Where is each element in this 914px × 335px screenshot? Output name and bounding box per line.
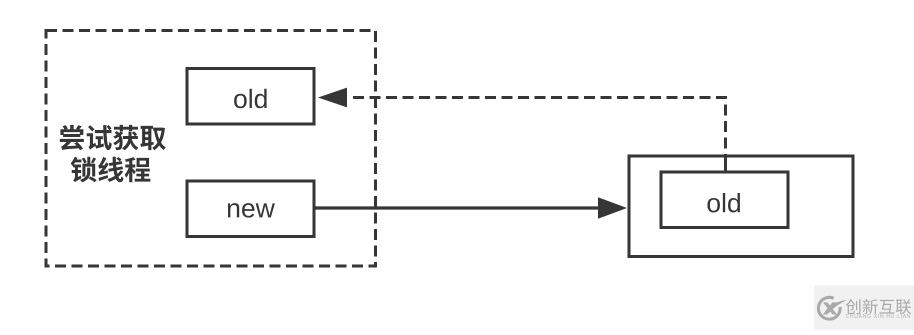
svg-text:CHUANG XIN HU LIAN: CHUANG XIN HU LIAN <box>846 314 912 320</box>
dashed container: waiting-threads group <box>46 31 376 267</box>
box: old (left) <box>187 69 314 125</box>
label 尝试获取锁线程 (threads trying to acquire lock) <box>60 125 166 182</box>
box: new <box>187 181 314 237</box>
solid arrow: new to right container <box>313 206 599 209</box>
right outer container box <box>629 156 853 257</box>
watermark: chuangxin hulian logo <box>814 286 914 331</box>
box: old (right, current lock holder) <box>661 172 788 228</box>
dashed arrow: right old back to left old <box>724 156 727 173</box>
